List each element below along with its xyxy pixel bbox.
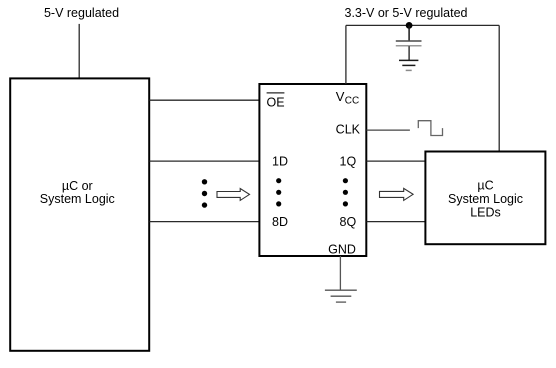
wire: 1D from µC block to latch — [150, 160, 260, 162]
svg-text:System Logic: System Logic — [40, 192, 115, 206]
bus arrow: data flow µC to latch — [217, 189, 250, 201]
pin OE (active low, overbar) — [267, 93, 285, 109]
pin VCC — [336, 89, 359, 107]
pin GND — [328, 242, 356, 256]
value label: 3.3-V or 5-V regulated — [345, 6, 468, 20]
wire: 1Q from latch to LED block — [367, 160, 426, 162]
svg-text:OE: OE — [267, 95, 285, 109]
svg-text:GND: GND — [328, 242, 356, 256]
svg-text:µC or: µC or — [62, 179, 93, 193]
ground: latch GND ground symbol — [325, 290, 357, 302]
wire: 8D from µC block to latch — [150, 221, 260, 223]
pin 1D — [272, 154, 288, 168]
wire: capacitor to ground — [408, 46, 410, 60]
svg-text:System Logic: System Logic — [448, 192, 523, 206]
svg-text:CLK: CLK — [336, 122, 361, 136]
ellipsis dots: latch Q outputs 2..7 — [343, 178, 348, 206]
pin CLK — [336, 122, 361, 136]
wire: VCC pin up to supply rail — [345, 25, 347, 84]
pin 8Q — [340, 215, 357, 229]
svg-text:8Q: 8Q — [340, 215, 357, 229]
wire: 5-V supply down to µC block — [78, 24, 80, 78]
wire: CLK stub — [367, 129, 410, 131]
svg-text:1D: 1D — [272, 154, 288, 168]
svg-text:V: V — [336, 89, 345, 104]
ellipsis dots: data bus lines between µC block and latch — [202, 179, 207, 208]
svg-text:8D: 8D — [272, 215, 288, 229]
wire: 8Q from latch to LED block — [367, 221, 426, 223]
block: µC or System Logic — [10, 78, 149, 350]
wire: junction down to bypass capacitor — [408, 25, 410, 41]
svg-text:3.3-V or 5-V regulated: 3.3-V or 5-V regulated — [345, 6, 468, 20]
svg-text:5-V regulated: 5-V regulated — [44, 6, 119, 20]
svg-text:µC: µC — [477, 179, 493, 193]
capacitor C1: bypass capacitor plates — [396, 41, 422, 46]
value label: 5-V regulated — [44, 6, 119, 20]
pin 8D — [272, 215, 288, 229]
svg-text:CC: CC — [345, 96, 359, 107]
wire: GND pin down to ground — [339, 256, 341, 290]
pin 1Q — [340, 154, 357, 168]
ellipsis dots: latch D inputs 2..7 — [276, 178, 281, 206]
ground: capacitor ground symbol — [399, 60, 418, 70]
block: µC System Logic LEDs — [425, 152, 545, 245]
svg-text:LEDs: LEDs — [470, 206, 501, 220]
wire: OE from µC block to latch — [150, 99, 260, 101]
wire: supply rail (3.3-V or 5-V) — [346, 24, 499, 26]
IC U1: octal latch/register body — [259, 84, 366, 256]
bus arrow: data flow latch to LED block — [380, 188, 414, 200]
clock waveform symbol — [418, 121, 442, 136]
svg-text:1Q: 1Q — [340, 154, 357, 168]
wire: supply rail down to LED block — [498, 25, 500, 151]
node: supply junction dot — [406, 22, 413, 29]
